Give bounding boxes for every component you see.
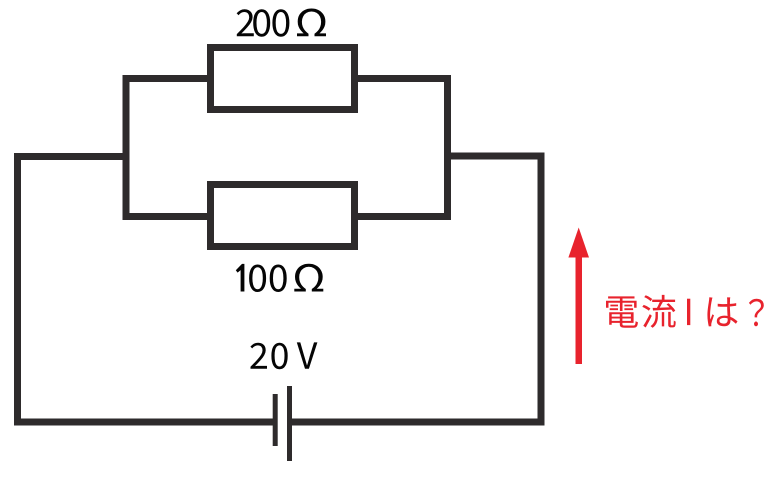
label 電流Iは？ (hiragana は) [707, 297, 737, 326]
wire: outer loop top-left horizontal [14, 153, 126, 160]
label 電流Iは？ (kanji 流) [642, 295, 675, 328]
label 電流Iは？ (kanji 電) [606, 296, 638, 327]
wire: bottom branch left segment [123, 213, 208, 220]
resistor R1 200Ω [211, 48, 355, 110]
wire: outer loop left vertical [14, 153, 21, 426]
battery V1 negative plate (short bar) [273, 394, 278, 446]
label 100Ω [236, 264, 323, 292]
wire: outer loop bottom horizontal (right of battery) [292, 419, 545, 426]
wire: outer loop bottom horizontal (left of battery) [14, 419, 273, 426]
wire: right parallel branch vertical [444, 75, 451, 220]
wire: outer loop right vertical [538, 153, 545, 426]
resistor R2 100Ω [211, 185, 355, 247]
wire: bottom branch right segment [358, 213, 451, 220]
battery V1 positive plate (long bar) [287, 386, 292, 461]
current arrow I (upward) [568, 228, 589, 365]
label 20 V [250, 342, 317, 369]
wire: left parallel branch vertical [123, 75, 130, 220]
wire: top branch right segment [358, 75, 451, 82]
label 200Ω [237, 9, 326, 37]
label 電流Iは？ (fullwidth question mark) [749, 299, 764, 327]
label 電流Iは？ (letter I) [687, 299, 690, 325]
wire: outer loop top-right horizontal [448, 153, 545, 160]
wire: top branch left segment [123, 75, 208, 82]
